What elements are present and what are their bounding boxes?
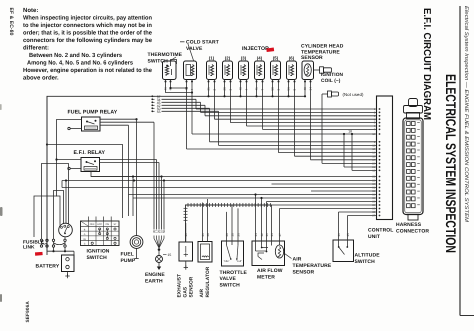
svg-text:15: 15	[168, 253, 172, 257]
injector 5	[271, 55, 281, 84]
injector 1	[207, 55, 217, 84]
svg-text:E.F.I. CIRCUIT DIAGRAM: E.F.I. CIRCUIT DIAGRAM	[421, 8, 432, 120]
svg-text:5E: 5E	[162, 229, 166, 233]
svg-text:IGNITION: IGNITION	[321, 72, 344, 78]
svg-text:METER: METER	[257, 274, 275, 280]
staircase verticals from bus to control unit	[187, 84, 219, 149]
injector signal drops to control unit rows	[215, 84, 295, 156]
svg-text:OFF: OFF	[90, 223, 95, 226]
svg-text:SENSOR: SENSOR	[301, 55, 323, 61]
label THROTTLE VALVE SWITCH	[220, 270, 248, 289]
svg-text:to the injector connectors whi: to the injector connectors which may not…	[23, 22, 152, 29]
svg-text:However, engine operation is n: However, engine operation is not related…	[23, 67, 153, 74]
ignition table stubs	[89, 217, 112, 222]
svg-text:31: 31	[184, 233, 188, 237]
note text block	[23, 7, 153, 81]
svg-text:"Full": "Full"	[236, 260, 242, 263]
wire: thermotime feed line A	[46, 84, 193, 146]
label IGNITION COIL (-)	[321, 72, 344, 84]
wire row 18 from cold start	[192, 130, 377, 134]
efi relay K2	[81, 158, 100, 172]
svg-text:CONNECTOR: CONNECTOR	[396, 228, 429, 234]
svg-text:Note:: Note:	[23, 7, 38, 14]
scan smudges left edge	[0, 104, 3, 302]
fuel pump M	[130, 119, 143, 258]
svg-text:Between No. 2 and No. 3 cylind: Between No. 2 and No. 3 cylinders	[29, 52, 123, 59]
label INJECTOR	[242, 46, 269, 52]
svg-text:17: 17	[372, 159, 375, 162]
section title E.F.I. CIRCUIT DIAGRAM	[421, 8, 432, 120]
injector 4	[255, 55, 265, 84]
svg-text:20: 20	[372, 163, 375, 166]
exhaust gas sensor wire	[185, 223, 187, 242]
svg-text:20: 20	[225, 233, 229, 237]
svg-text:THERMOTIME: THERMOTIME	[148, 52, 183, 58]
svg-text:27: 27	[372, 215, 375, 218]
svg-text:When inspecting injector circu: When inspecting injector circuits, pay a…	[23, 15, 152, 22]
label CYLINDER HEAD TEMPERATURE SENSOR	[301, 44, 344, 62]
svg-text:REGULATOR: REGULATOR	[205, 266, 211, 297]
ignition switch contact table	[81, 221, 120, 246]
svg-text:"Idle": "Idle"	[223, 260, 229, 263]
svg-text:FUEL PUMP RELAY: FUEL PUMP RELAY	[68, 110, 118, 116]
svg-text:ALTITUDE: ALTITUDE	[355, 253, 381, 259]
control unit pin feed wires middle group	[187, 142, 377, 171]
wire: fuel pump relay to pump	[100, 118, 138, 120]
wire: injector supply drops	[207, 84, 306, 97]
svg-text:Among No. 4, No. 5 and No. 6 c: Among No. 4, No. 5 and No. 6 cylinders	[27, 59, 134, 66]
svg-text:SWITCH: SWITCH	[220, 283, 241, 289]
ignition switch rotary SW	[59, 223, 73, 251]
svg-text:(3): (3)	[241, 55, 247, 60]
svg-text:AIR: AIR	[199, 289, 205, 298]
svg-text:IGNITION: IGNITION	[87, 248, 110, 254]
throttle valve switch TVS	[222, 205, 244, 266]
svg-text:13: 13	[372, 145, 375, 148]
air flow meter AFM	[252, 193, 285, 265]
svg-text:(6): (6)	[289, 55, 295, 60]
air regulator AR	[198, 199, 212, 262]
svg-text:COIL (−): COIL (−)	[321, 78, 341, 84]
fuel pump relay terminal lead	[68, 127, 82, 129]
label ALTITUDE SWITCH	[355, 253, 381, 265]
svg-text:26: 26	[236, 233, 240, 237]
svg-text:Electrical System Inspection —: Electrical System Inspection — ENGINE FU…	[463, 6, 469, 223]
wire: thermotime switch right pin jog	[169, 84, 186, 89]
svg-text:BATTERY: BATTERY	[36, 263, 60, 269]
chapter title ELECTRICAL SYSTEM INSPECTION	[443, 74, 459, 253]
thermotime switch TT	[163, 60, 177, 85]
wire: relay feed left	[57, 120, 82, 197]
svg-text:30: 30	[230, 233, 234, 237]
svg-text:ENGINE: ENGINE	[145, 272, 165, 278]
svg-text:21: 21	[201, 233, 205, 237]
svg-text:SWITCH: SWITCH	[148, 58, 169, 64]
svg-text:GAS: GAS	[183, 286, 189, 297]
svg-text:(4): (4)	[257, 55, 263, 60]
svg-text:FUEL: FUEL	[121, 252, 134, 258]
label CONTROL UNIT	[368, 228, 393, 240]
svg-text:SENSOR: SENSOR	[189, 276, 195, 297]
svg-text:22: 22	[372, 176, 375, 179]
cylinder head temperature sensor CHT	[302, 61, 314, 84]
pin numbers top row	[164, 87, 313, 91]
svg-text:16: 16	[372, 155, 375, 158]
svg-text:SEF906A: SEF906A	[25, 301, 30, 323]
svg-text:12: 12	[372, 170, 375, 173]
svg-text:18: 18	[348, 130, 352, 134]
svg-text:PUMP: PUMP	[121, 258, 136, 264]
label EXHAUST GAS SENSOR	[177, 274, 195, 298]
label BATTERY	[36, 263, 60, 269]
svg-text:(1): (1)	[209, 55, 215, 60]
label HARNESS CONNECTOR	[396, 222, 429, 234]
page margin text EF & EC-80	[8, 8, 14, 36]
running head italic	[463, 6, 469, 223]
svg-text:SENSOR: SENSOR	[293, 269, 315, 275]
svg-text:HARNESS: HARNESS	[396, 222, 422, 228]
svg-text:14: 14	[372, 152, 375, 155]
svg-text:different:: different:	[23, 45, 49, 52]
svg-text:EF & EC-80: EF & EC-80	[8, 8, 14, 36]
svg-text:order; that is, it is possible: order; that is, it is possible that the …	[23, 30, 153, 37]
wire: relay to engine earth	[100, 121, 154, 123]
svg-text:31: 31	[337, 233, 341, 237]
label FUSIBLE LINK	[23, 239, 45, 250]
vertical rule right margin	[460, 6, 474, 316]
svg-text:SWITCH: SWITCH	[355, 259, 376, 265]
svg-text:TEMPERATURE: TEMPERATURE	[293, 263, 332, 269]
control unit pin feed wires top group	[196, 109, 377, 129]
svg-text:34: 34	[254, 233, 258, 237]
svg-text:EARTH: EARTH	[145, 279, 163, 285]
figure number SEF906A	[25, 301, 30, 323]
svg-text:18: 18	[372, 133, 375, 136]
fusible link terminals	[40, 239, 65, 247]
svg-text:connectors for the following c: connectors for the following cylinders m…	[23, 37, 153, 44]
svg-text:FUSIBLE: FUSIBLE	[23, 239, 45, 245]
wire: fusible link to battery	[47, 247, 74, 256]
svg-text:E.F.I. RELAY: E.F.I. RELAY	[74, 150, 106, 156]
not used connector	[322, 91, 364, 97]
injector 3	[239, 55, 249, 84]
label IGNITION SWITCH	[87, 248, 110, 260]
wire: efi relay output down	[91, 172, 162, 177]
svg-text:IG: IG	[83, 238, 86, 241]
ignition coil symbol	[314, 67, 332, 73]
label ENGINE EARTH	[145, 272, 165, 284]
red highlight mark near FUSIBLE LINK	[35, 252, 43, 256]
svg-text:EXHAUST: EXHAUST	[177, 274, 183, 298]
injector 6	[287, 55, 297, 84]
svg-text:15: 15	[372, 148, 375, 151]
verticals feeding middle group	[311, 84, 354, 170]
altitude switch ALT	[333, 212, 354, 262]
bus lines with wire numbers	[151, 95, 305, 114]
wire: mid verticals	[100, 125, 134, 216]
svg-text:36: 36	[270, 233, 274, 237]
cold start valve CSV	[184, 61, 197, 84]
svg-text:LINK: LINK	[23, 245, 35, 251]
efi relay terminal lead	[68, 167, 81, 169]
wire: efi relay feed left	[55, 158, 81, 160]
wire: cold start valve drops	[185, 84, 192, 134]
label AIR TEMPERATURE SENSOR	[285, 254, 332, 276]
pin numbers engine earth	[152, 229, 166, 233]
pin numbers bottom row	[184, 233, 350, 237]
control unit U1	[377, 96, 393, 220]
label FUEL PUMP	[121, 252, 136, 264]
battery BAT	[62, 255, 75, 278]
injector 2	[223, 55, 233, 84]
svg-text:48: 48	[206, 233, 210, 237]
svg-text:ELECTRICAL SYSTEM INSPECTION: ELECTRICAL SYSTEM INSPECTION	[443, 74, 459, 253]
harness connector J1	[403, 99, 423, 221]
wire: efi relay grounds	[100, 160, 160, 163]
svg-text:35: 35	[346, 233, 350, 237]
label AIR REGULATOR	[199, 266, 211, 297]
control unit pin numbers	[372, 108, 380, 218]
svg-text:ON: ON	[106, 223, 110, 226]
svg-text:COLD START: COLD START	[186, 40, 219, 46]
svg-text:32: 32	[260, 233, 264, 237]
svg-text:(Not used): (Not used)	[343, 92, 365, 97]
fuel pump relay K1	[82, 117, 101, 131]
wire: main feed from battery	[47, 96, 162, 255]
svg-text:CONTROL: CONTROL	[368, 228, 393, 234]
engine earth wires	[154, 122, 171, 270]
junctions bottom group	[65, 175, 165, 181]
multi-tap bundle line with ticks	[184, 203, 272, 242]
svg-text:THROTTLE: THROTTLE	[220, 270, 248, 276]
red highlight mark near INJECTOR	[266, 48, 274, 52]
svg-text:above order.: above order.	[23, 74, 59, 81]
svg-text:(5): (5)	[273, 55, 279, 60]
svg-text:ST: ST	[113, 223, 117, 226]
svg-text:27: 27	[278, 233, 282, 237]
svg-text:55: 55	[157, 110, 161, 114]
svg-text:SWITCH: SWITCH	[87, 255, 108, 261]
label AIR FLOW METER	[257, 268, 283, 280]
svg-text:AIR: AIR	[293, 257, 302, 263]
label E.F.I. RELAY	[74, 150, 106, 156]
svg-text:(2): (2)	[225, 55, 231, 60]
svg-text:INJECTOR: INJECTOR	[242, 46, 269, 52]
wire: left harness verticals	[34, 96, 123, 239]
label COLD START VALVE	[180, 40, 219, 61]
control unit pin feed wires bottom group	[62, 177, 377, 216]
exhaust gas sensor EGS	[179, 242, 193, 270]
label THERMOTIME SWITCH	[148, 52, 183, 64]
svg-text:UNIT: UNIT	[368, 234, 380, 240]
svg-text:AIR FLOW: AIR FLOW	[257, 268, 283, 274]
label FUEL PUMP RELAY	[68, 110, 118, 116]
svg-text:31: 31	[265, 233, 269, 237]
svg-text:ACC: ACC	[97, 223, 102, 226]
svg-text:VALVE: VALVE	[220, 276, 237, 282]
